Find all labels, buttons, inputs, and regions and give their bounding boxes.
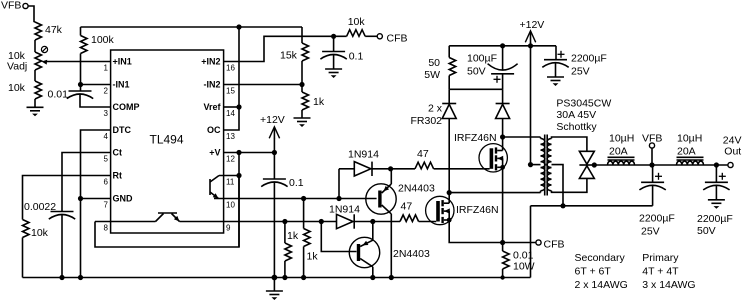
label 1N914 ch2 [329,204,360,216]
svg-text:10µH: 10µH [677,133,702,145]
diode D PS3045CW [579,151,594,178]
wire Q2 base [321,222,356,252]
wire M1 drain up [502,137,504,151]
label 47 ch1 [417,148,429,160]
label IRFZ46N lower [456,204,499,216]
svg-text:13: 13 [226,132,235,141]
svg-text:16: 16 [226,63,235,72]
svg-text:10W: 10W [513,261,535,273]
wire pin 8 line [95,221,156,223]
label 10k CFB [348,16,366,28]
resistor R 47k [35,22,42,52]
capacitor C 2200uF 50V out [703,165,729,200]
svg-text:CFB: CFB [544,239,565,251]
label 20A L2 [677,146,696,158]
label PS3045CW [556,98,611,110]
svg-text:10k: 10k [348,16,366,28]
wire DTC-GND down to rail [80,199,82,278]
label 50V [467,66,486,78]
transistor Q1 2N4403 [366,169,396,278]
capacitor C 2200uF 25V top [542,46,568,77]
svg-text:8: 8 [104,223,109,232]
transformer T1 primary winding [541,139,546,191]
svg-text:5W: 5W [424,69,440,81]
node -IN1 junction [78,82,83,87]
diode D FR302 b [496,89,510,137]
svg-text:30A 45V: 30A 45V [556,109,596,121]
svg-text:4: 4 [104,132,109,141]
svg-text:Ct: Ct [113,148,123,158]
ground 1k divider [294,118,311,127]
label 10k pot [8,50,26,62]
label VFB right [642,133,662,145]
capacitor C 0.1 decouple [261,153,287,278]
node CFB filter junction [331,34,336,39]
wire pin 6 Rt [23,176,111,220]
svg-text:10k: 10k [31,227,49,239]
label 50 [428,57,440,69]
svg-text:2200µF: 2200µF [571,53,607,65]
node rail junction 1k2 [301,275,306,280]
node M1 drain junction [500,134,505,139]
plus 2200uF top [558,51,565,58]
resistor R 10k CFB [347,30,366,37]
wire output line [594,164,728,166]
wire top rail Vref [81,26,303,28]
node Schottky output junction [592,162,597,167]
node Vref pin14 junction [236,104,241,109]
wire +12V vertical x239 [238,153,240,248]
svg-text:+12V: +12V [260,114,285,126]
wire 10k to CFB [365,35,377,37]
wire M1 source down [502,167,504,242]
svg-text:2: 2 [104,86,109,95]
node diode1 anode tap [336,196,341,201]
svg-text:COMP: COMP [113,102,140,112]
transistor Q2 2N4403 [349,222,379,278]
svg-text:0.01: 0.01 [48,89,69,101]
svg-text:Out: Out [724,146,741,158]
resistor R 50 5W [449,46,456,90]
svg-text:TL494: TL494 [150,133,184,147]
svg-text:+IN2: +IN2 [201,57,220,67]
ground pot chain [27,107,44,116]
svg-text:1k: 1k [287,230,299,242]
svg-text:2N4403: 2N4403 [398,183,435,195]
node Q2 base tap [319,219,324,224]
svg-text:5: 5 [104,154,109,163]
node Q2 emitter junction [370,219,375,224]
node pin11 +12V junction [236,173,241,178]
svg-text:20A: 20A [609,146,628,158]
svg-text:VFB: VFB [642,133,662,145]
transistor M2 IRFZ46N lower [426,196,454,224]
wire pin 11 [219,175,239,177]
svg-text:+V: +V [209,148,220,158]
svg-text:1k: 1k [313,96,325,108]
label CFB top [387,33,408,45]
wire pin 15 [224,84,302,86]
node M2 drain junction [447,190,452,195]
svg-text:25V: 25V [571,66,590,78]
label 0.01 [48,89,69,101]
node VFB input label [1,0,21,12]
label 47k [45,24,63,36]
wire VFB tap up [651,148,653,165]
svg-text:1N914: 1N914 [348,149,379,161]
label 0.1 decouple [289,177,304,189]
label 100k [91,34,115,46]
capacitor C 0.1 CFB filter [320,36,346,69]
svg-text:CFB: CFB [387,33,408,45]
plus 100uF [494,76,501,83]
wire pin 7 GND [81,198,111,200]
wire pin 10 drive line [214,198,377,200]
terminal CFB mid [536,240,541,245]
wire pin 2 -IN1 [81,84,111,86]
transformer T1 secondary winding [547,139,552,191]
svg-text:9: 9 [226,223,231,232]
label 25V out1 [641,226,660,238]
wire secondary top [552,137,587,151]
note 4T+4T [642,266,679,278]
svg-text:10: 10 [226,200,235,209]
pot adjust circle [41,46,47,52]
capacitor C 0.01 [67,85,111,108]
svg-text:50V: 50V [467,66,486,78]
svg-text:+IN1: +IN1 [113,57,132,67]
node rail junction Q2 collector [370,275,375,280]
node Vref rail junction [236,24,241,29]
label CFB mid [544,239,565,251]
svg-text:20A: 20A [677,146,696,158]
pot wiper wire to pin 1 [42,60,111,65]
label Schottky [556,121,597,133]
note secondary [575,252,626,264]
label 10k timing [31,227,49,239]
wire +12V rail top [449,45,556,47]
wire pin 8 loop to +12V [95,176,239,248]
label 24V [723,135,742,147]
note 2x14AWG [575,279,628,291]
label +12V left [260,114,285,126]
svg-text:10µH: 10µH [609,133,634,145]
transformer T1 core [545,135,548,196]
svg-text:VFB: VFB [1,0,21,12]
ground CFB filter [325,69,342,78]
svg-text:25V: 25V [641,226,660,238]
label 2x [428,103,443,115]
svg-text:Vadj: Vadj [7,61,27,73]
label 10W sense [513,261,535,273]
ground output cap [708,200,725,209]
svg-text:-IN2: -IN2 [203,80,220,90]
wire drain1 to primary top [503,137,541,139]
node rail junction Q1 collector [389,275,394,280]
svg-text:Secondary: Secondary [575,252,626,264]
svg-text:Vref: Vref [203,102,221,112]
svg-text:7: 7 [104,200,109,209]
svg-text:FR302: FR302 [410,115,442,127]
node Q1 emitter junction [388,166,393,171]
node +V x239 junction [236,150,241,155]
label 20A L1 [609,146,628,158]
node rail junction sense [500,275,504,279]
label 10uH L1 [609,133,634,145]
terminal CFB top [377,34,382,39]
svg-text:0.1: 0.1 [289,177,304,189]
label 2200uF out2 [697,213,733,225]
svg-text:-IN1: -IN1 [113,80,130,90]
wire M2 source down [449,220,536,243]
resistor R 15k [302,27,309,85]
plus 2200uF out1 [655,173,662,180]
capacitor C 2200uF 25V out [639,165,665,206]
label FR302 [410,115,442,127]
TL494 pin labels [113,57,222,204]
label 1k ch2 [287,230,299,242]
svg-text:0.0022: 0.0022 [24,201,56,213]
label 2N4403 ch1 [398,183,435,195]
label 0.01 sense [513,250,534,262]
label 15k [280,50,298,62]
label 0.0022 [24,201,56,213]
svg-text:2200µF: 2200µF [697,213,733,225]
wire drain2 to primary bottom [449,191,540,193]
node 1k2 tap [301,196,306,201]
label 50V out2 [697,225,716,237]
node rail junction 1k1 [282,275,287,280]
svg-text:PS3045CW: PS3045CW [556,98,611,110]
diode D 1N914 ch1 [339,162,391,176]
svg-text:1k: 1k [307,251,319,263]
svg-text:11: 11 [226,177,235,186]
resistor R 1k ch1 pulldown [304,199,311,278]
label TL494 [150,133,184,147]
label 5W [424,69,440,81]
op-amp U1 TL494 box [111,50,224,233]
svg-text:+12V: +12V [520,19,545,31]
svg-text:4T + 4T: 4T + 4T [642,266,679,278]
wire pin 4 DTC [81,130,111,199]
svg-text:100µF: 100µF [467,53,497,65]
node VFB tap [649,162,654,167]
label 2200uF out1 [639,213,675,225]
svg-text:Primary: Primary [642,252,679,264]
label 25V top [571,66,590,78]
label Vadj [7,61,27,73]
node rail junction x62 [59,275,64,280]
node rail junction x80 [78,275,83,280]
transistor M1 IRFZ46N upper [479,144,507,172]
wire secondary bottom [552,178,587,192]
svg-text:Rt: Rt [113,171,123,181]
label 100uF [467,53,497,65]
label 2N4403 ch2 [393,248,430,260]
resistor R 0.01 10W sense [503,243,510,278]
resistor R 10k lower [35,81,42,107]
capacitor C 100uF 50V [488,46,518,90]
node main ground junction [272,275,278,281]
wire diode1 anode up [338,169,340,199]
node sense junction [500,240,505,245]
node 1k1 tap [282,219,287,224]
node 100uF rail junction [500,43,505,48]
svg-text:2200µF: 2200µF [639,213,675,225]
svg-text:1N914: 1N914 [329,204,360,216]
node pin15 junction [299,82,304,87]
TL494 internal transistor T1 [156,213,180,222]
svg-text:47: 47 [401,201,413,213]
label 30A 45V [556,109,596,121]
svg-text:GND: GND [113,194,134,204]
resistor R 1k divider [302,85,309,118]
wire ground rail [23,277,531,279]
potentiometer 10k Vadj body [35,52,42,81]
label 47 ch2 [401,201,413,213]
svg-text:14: 14 [226,109,235,118]
terminal VFB [23,3,28,8]
label 2200uF top [571,53,607,65]
diode D 1N914 ch2 [337,214,373,228]
svg-text:50V: 50V [697,225,716,237]
resistor R 10k timing [23,220,30,278]
resistor R 100k [81,27,88,85]
wire VFB to 47k [28,6,35,22]
wire snubber bottom [449,88,502,90]
wire +12V to center tap [531,46,541,165]
svg-text:1: 1 [104,63,109,72]
terminal VFB right [649,143,654,148]
wire pin 16 feedback [224,36,347,61]
svg-text:15: 15 [226,86,235,95]
label +12V right [520,19,545,31]
svg-text:100k: 100k [91,34,115,46]
svg-text:OC: OC [207,125,221,135]
label 0.1 CFB [349,51,364,63]
wire secondary return [531,206,653,278]
svg-text:Schottky: Schottky [556,121,597,133]
wire M2 drain up [448,193,450,204]
svg-text:3 x 14AWG: 3 x 14AWG [642,279,695,291]
plus 2200uF out2 [719,173,726,180]
note 3x14AWG [642,279,695,291]
svg-text:IRFZ46N: IRFZ46N [454,132,497,144]
node output junction [714,162,719,167]
wire pin 9 line [180,221,337,223]
label 10uH L2 [677,133,702,145]
capacitor C 0.0022 [49,212,75,278]
wire pin 5 Ct [62,153,111,212]
svg-text:6T + 6T: 6T + 6T [575,266,612,278]
wire pin 14 stub [224,106,239,108]
note primary [642,252,679,264]
svg-text:47k: 47k [45,24,63,36]
node return center tap junction [560,203,565,208]
label Out [724,146,741,158]
label 1k divider [313,96,325,108]
svg-text:12: 12 [226,154,235,163]
svg-text:47: 47 [417,148,429,160]
svg-text:10k: 10k [8,82,26,94]
svg-text:6: 6 [104,177,109,186]
inductor L2 10uH [677,157,704,165]
wire pin 12 +V [224,152,275,154]
resistor R 47 ch2 [373,215,436,222]
svg-text:50: 50 [428,57,440,69]
power +12V arrow left [269,127,279,153]
node GND junction [78,196,83,201]
node +12V rail junction [528,43,533,48]
svg-text:2 x 14AWG: 2 x 14AWG [575,279,628,291]
svg-text:3: 3 [104,109,109,118]
label IRFZ46N upper [454,132,497,144]
TL494 internal transistor T2 [210,176,219,199]
svg-text:DTC: DTC [113,125,132,135]
label 10k lower [8,82,26,94]
resistor R 1k ch2 pulldown [285,222,292,278]
ground main [266,278,283,301]
svg-text:0.1: 0.1 [349,51,364,63]
node +V junction x274 [272,150,277,155]
svg-text:15k: 15k [280,50,298,62]
diode D FR302 a [442,89,456,192]
wire secondary center tap [552,165,564,206]
svg-text:2N4403: 2N4403 [393,248,430,260]
wire Vref vertical pin14 pin13 [224,27,239,130]
note 6T+6T [575,266,612,278]
resistor R 47 ch1 [391,162,490,169]
node center tap [528,162,533,167]
terminal 24V out [728,162,733,167]
inductor L1 10uH [608,157,635,165]
label 1k ch1 [307,251,319,263]
TL494 pin numbers [104,63,236,232]
svg-text:IRFZ46N: IRFZ46N [456,204,499,216]
ground 2200uF top [547,77,564,86]
power +12V arrow right [525,31,535,46]
svg-text:2 x: 2 x [428,103,443,115]
label 1N914 ch1 [348,149,379,161]
